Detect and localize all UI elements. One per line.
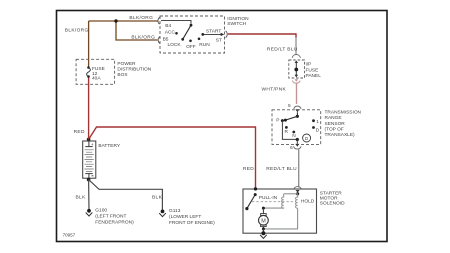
wire BLK/ORG branch to ignition B5 — [116, 21, 158, 40]
border frame — [57, 11, 388, 242]
svg-text:FUSE: FUSE — [306, 67, 319, 73]
svg-text:70957: 70957 — [63, 233, 76, 238]
junction node battery positive — [87, 138, 91, 142]
label RED (battery) — [74, 129, 85, 135]
svg-text:RANGE: RANGE — [325, 115, 342, 121]
svg-text:HOLD: HOLD — [301, 198, 315, 204]
label RED/LT BLU (lower) — [266, 166, 297, 172]
svg-text:BOX: BOX — [117, 72, 128, 78]
svg-text:(TOP OF: (TOP OF — [325, 127, 344, 133]
mechanical link dashed — [252, 201, 295, 203]
wire RED/LT BLU from ignition to fuse panel — [228, 33, 296, 55]
label HOLD — [301, 198, 315, 204]
label RED (battery feed) — [243, 166, 254, 172]
junction node BLK/ORG — [114, 19, 117, 22]
svg-text:FENDERAPRON): FENDERAPRON) — [95, 219, 134, 225]
connector at ignition B5 — [158, 37, 160, 44]
svg-text:+: + — [91, 143, 94, 148]
label BATTERY — [98, 143, 120, 149]
svg-text:LOCK: LOCK — [168, 42, 182, 48]
label BLK/ORG (left vertical) — [65, 28, 89, 34]
TR internal wire P to pin 6 — [282, 121, 299, 141]
svg-text:5: 5 — [288, 103, 291, 109]
label G113 (LOWER LEFT FRONT OF ENGINE) — [169, 208, 215, 226]
label I/P FUSE PANEL — [306, 61, 322, 79]
label BLK (G113) — [152, 194, 163, 200]
label PULL-IN — [259, 195, 278, 201]
svg-text:P: P — [276, 118, 279, 124]
wire BLK/ORG vertical from fuse up — [88, 21, 90, 68]
contact ACC — [165, 29, 178, 35]
wire RED/LT BLU TR sensor to solenoid — [298, 150, 300, 188]
svg-text:RED: RED — [243, 166, 254, 172]
battery — [83, 141, 96, 178]
wire WHT/PNK — [296, 83, 298, 105]
svg-text:I/P: I/P — [306, 61, 312, 67]
pin 6 connector TR sensor bottom — [290, 140, 301, 152]
power distribution box — [76, 59, 115, 84]
svg-text:B4: B4 — [165, 23, 171, 29]
svg-text:G100: G100 — [95, 208, 107, 214]
starter motor solenoid box — [243, 189, 317, 233]
label WHT/PNK — [262, 87, 287, 93]
ground solenoid — [260, 231, 267, 238]
svg-text:RED: RED — [74, 129, 85, 135]
wire pull-in coil to motor node — [263, 207, 283, 209]
label IGNITION SWITCH — [227, 16, 249, 27]
junction node motor top — [262, 207, 265, 210]
contact N — [292, 131, 296, 140]
svg-text:SOLENOID: SOLENOID — [320, 200, 345, 206]
pin 5 connector TR sensor — [288, 103, 301, 112]
svg-text:POWER: POWER — [117, 61, 136, 67]
junction node solenoid battery entry — [254, 187, 257, 190]
pin B4 — [165, 23, 171, 29]
svg-text:B5: B5 — [163, 36, 169, 42]
pin B5 — [163, 36, 169, 42]
TR sensor wiper arm — [284, 112, 299, 121]
svg-text:TRANSMISSION: TRANSMISSION — [325, 109, 362, 115]
hold coil — [296, 194, 298, 208]
label TRANSMISSION RANGE SENSOR — [325, 109, 362, 138]
contact P — [276, 118, 284, 124]
label POWER DISTRIBUTION BOX — [117, 61, 151, 78]
svg-text:R: R — [285, 129, 289, 135]
svg-text:BATTERY: BATTERY — [98, 143, 120, 149]
svg-text:FRONT OF ENGINE): FRONT OF ENGINE) — [169, 220, 215, 226]
contact OFF — [186, 40, 196, 50]
wire hold coil return — [263, 208, 297, 229]
contact D — [312, 126, 320, 133]
contact R — [285, 126, 289, 135]
svg-text:SWITCH: SWITCH — [227, 21, 246, 27]
contact START — [201, 28, 221, 35]
svg-text:ST: ST — [216, 38, 222, 44]
wire to pull-in coil — [284, 193, 298, 195]
contact LOCK — [168, 38, 185, 48]
label BLK/ORG (to B4) — [129, 15, 153, 21]
wire BLK battery to G113 — [89, 180, 163, 211]
connector solenoid top — [294, 187, 302, 193]
label FUSE 12 40A — [92, 66, 105, 82]
svg-text:M: M — [261, 218, 266, 224]
switch arm ignition — [161, 20, 192, 39]
svg-text:MOTOR: MOTOR — [320, 195, 338, 201]
transmission range sensor box — [272, 110, 321, 145]
diagram number 70957 — [63, 233, 76, 238]
label G100 (LEFT FRONT FENDERAPRON) — [95, 208, 134, 226]
wire BLK/ORG top horizontal to ignition B4 — [89, 20, 158, 22]
junction node solenoid coil entry — [296, 192, 299, 195]
label BLK (G100) — [76, 194, 87, 200]
wire RED fuse to battery — [88, 77, 90, 140]
svg-text:40A: 40A — [92, 76, 101, 82]
svg-text:PANEL: PANEL — [306, 73, 322, 79]
svg-text:START: START — [206, 28, 221, 34]
ground G113 — [159, 210, 166, 217]
ignition switch box — [160, 16, 225, 53]
ground G100 — [86, 209, 93, 216]
svg-text:N: N — [292, 133, 296, 139]
svg-text:SENSOR: SENSOR — [325, 121, 346, 127]
fuse panel arrows and node — [294, 60, 298, 77]
fuse 12 40A symbol — [87, 66, 91, 78]
svg-text:1: 1 — [316, 119, 319, 125]
svg-text:ACC: ACC — [165, 29, 176, 35]
svg-text:D: D — [316, 127, 320, 133]
junction node battery negative — [87, 178, 91, 182]
svg-text:DISTRIBUTION: DISTRIBUTION — [117, 67, 151, 73]
svg-text:BLK: BLK — [76, 194, 87, 200]
fuse panel box I/P — [289, 60, 305, 78]
svg-text:WHT/PNK: WHT/PNK — [262, 87, 287, 93]
svg-text:RUN: RUN — [199, 42, 210, 48]
connector fuse panel bottom — [292, 79, 300, 83]
junction node motor bottom — [262, 227, 265, 233]
svg-text:BLK/ORG: BLK/ORG — [131, 34, 155, 40]
svg-text:BLK/ORG: BLK/ORG — [129, 15, 153, 21]
connector ignition output — [226, 31, 228, 38]
svg-text:PULL-IN: PULL-IN — [259, 195, 278, 201]
svg-text:RED/LT BLU: RED/LT BLU — [266, 166, 297, 172]
label ST — [216, 38, 222, 44]
svg-text:D: D — [305, 136, 309, 141]
svg-text:6: 6 — [290, 145, 293, 151]
connector at ignition B4 — [158, 17, 160, 24]
contact RUN — [198, 38, 211, 49]
pull-in coil — [282, 194, 284, 208]
svg-text:(LOWER LEFT: (LOWER LEFT — [169, 214, 201, 220]
label STARTER MOTOR SOLENOID — [320, 190, 345, 206]
svg-text:OFF: OFF — [186, 44, 196, 50]
label RED/LT BLU (upper) — [267, 47, 298, 53]
svg-text:RED/LT BLU: RED/LT BLU — [267, 47, 298, 53]
starter motor M — [259, 208, 269, 229]
position indicator circled D — [303, 134, 311, 142]
wire BLK battery to G100 — [88, 180, 90, 211]
svg-text:(LEFT FRONT: (LEFT FRONT — [95, 214, 126, 220]
svg-text:TRANSAXLE): TRANSAXLE) — [325, 132, 356, 138]
svg-text:BLK/ORG: BLK/ORG — [65, 28, 89, 34]
connector fuse panel top — [292, 55, 300, 58]
solenoid switch — [245, 193, 256, 210]
svg-text:G113: G113 — [169, 208, 181, 214]
wire RED battery to solenoid — [89, 127, 256, 189]
arrow START to ST output — [203, 33, 225, 36]
label BLK/ORG (to B5) — [131, 34, 155, 40]
svg-text:BLK: BLK — [152, 194, 163, 200]
contact 1 — [312, 119, 319, 125]
